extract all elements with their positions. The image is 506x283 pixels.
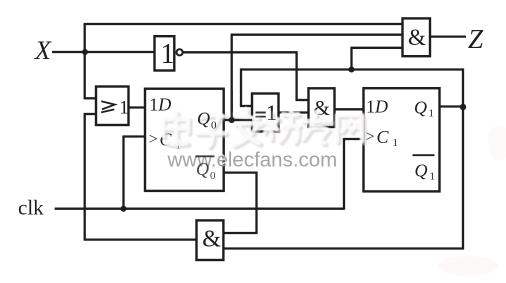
label FF0 Q0bar with overbar — [196, 156, 217, 182]
wire X branch down to OR upper input — [84, 51, 86, 98]
wire X branch up — [84, 24, 86, 53]
wire Q1 output — [440, 105, 464, 107]
junction dot node Q1 — [460, 104, 466, 110]
wire bottom return line Q1 to AND U6 — [223, 247, 464, 249]
AND gate U5 box (output Z) — [403, 18, 431, 56]
wire FF0 C input stub — [122, 135, 145, 137]
svg-text:>: > — [149, 131, 158, 148]
wire Q0 branch up — [231, 35, 233, 121]
svg-text:X: X — [34, 36, 52, 65]
wire Q0 output to XOR U3 — [224, 119, 252, 121]
wire Q0bar vertical down — [255, 172, 257, 234]
svg-text:1D: 1D — [149, 95, 171, 115]
svg-text:0: 0 — [210, 170, 216, 182]
inverter U1 box "1" — [155, 36, 175, 70]
wire FF1 C input stub — [343, 138, 364, 140]
wire clk lead — [55, 208, 344, 210]
svg-text:1: 1 — [119, 97, 129, 118]
wire OR U2 lower input vertical — [84, 114, 86, 240]
D flip-flop FF1 box — [364, 88, 440, 191]
AND gate U6 box (feedback) — [197, 220, 224, 260]
svg-text:1: 1 — [393, 137, 399, 149]
svg-text:Q: Q — [414, 97, 427, 117]
faint pink smudge bottom right — [438, 256, 498, 276]
wire clk vertical to FF1 C input — [343, 139, 345, 210]
wire OR U2 output to FF0 1D — [129, 106, 146, 108]
svg-text:0: 0 — [211, 120, 217, 132]
faint pink smudge right edge — [488, 125, 506, 161]
wire AND U4 upper input stub — [296, 99, 309, 101]
junction dot node X — [82, 49, 88, 55]
wire XOR U3 output to AND U4 — [279, 111, 309, 113]
svg-text:&: & — [202, 226, 221, 252]
svg-text:www.elecfans.com: www.elecfans.com — [167, 149, 338, 172]
wire feedback tap up to AND U5 — [350, 48, 352, 71]
wire inverter output vertical down — [295, 51, 297, 100]
wire OR U2 lower input stub — [84, 113, 96, 115]
svg-text:>: > — [366, 129, 375, 146]
D flip-flop FF0 box — [145, 89, 224, 191]
wire top line X to AND U5 — [84, 23, 403, 25]
wire inverter U1 output horizontal — [183, 51, 297, 53]
label FF0 Q0 — [197, 109, 217, 132]
wire Q0bar into AND U6 right upper — [223, 232, 257, 234]
wire clk branch up to FF0 C input — [122, 137, 124, 209]
AND gate U4 box — [309, 88, 335, 127]
OR gate U2 box — [96, 87, 129, 126]
svg-text:1: 1 — [266, 100, 277, 125]
svg-text:1: 1 — [430, 171, 436, 183]
wire AND U5 lower input line — [350, 47, 402, 49]
svg-text:Z: Z — [468, 24, 484, 54]
svg-text:1: 1 — [161, 39, 175, 70]
junction dot node Q1 feedback tap — [349, 67, 355, 73]
wire AND U6 output to left — [84, 238, 197, 240]
inverter U1 output bubble — [177, 49, 183, 55]
watermark text www.elecfans.com — [165, 147, 337, 172]
wire AND U4 output to FF1 1D — [335, 108, 364, 110]
svg-text:&: & — [408, 25, 426, 50]
label FF1 Q1bar with overbar — [413, 154, 435, 156]
svg-text:C: C — [377, 127, 390, 147]
wire Z output lead — [430, 35, 466, 37]
wire Q0bar output — [224, 171, 257, 173]
junction dot node Q0 redraw — [229, 117, 235, 123]
label &#8805;1 of OR U2 — [101, 101, 115, 112]
label =1 of XOR U3 — [256, 113, 266, 117]
junction dot node Q0 — [229, 117, 235, 123]
svg-text:1D: 1D — [366, 97, 388, 117]
svg-text:1: 1 — [429, 108, 435, 120]
svg-text:Q: Q — [196, 159, 209, 179]
wire Q0 to XOR redraw over watermark — [224, 90, 252, 121]
wire right feedback vertical — [462, 68, 464, 248]
svg-text:Q: Q — [415, 160, 428, 180]
wire Q0 line to AND U5 middle input — [231, 34, 403, 36]
wire XOR U3 upper input stub — [240, 105, 252, 107]
XOR gate U3 box — [252, 94, 279, 132]
wire feedback down to XOR upper input — [240, 68, 242, 106]
svg-text:Q: Q — [197, 109, 210, 129]
svg-text:clk: clk — [18, 196, 44, 220]
wire Q1 feedback line — [241, 68, 463, 70]
label =1 redraw over watermark — [256, 100, 278, 125]
wire OR U2 upper input stub — [84, 97, 96, 99]
junction dot node clk — [121, 206, 127, 212]
wire X input lead — [52, 51, 155, 53]
